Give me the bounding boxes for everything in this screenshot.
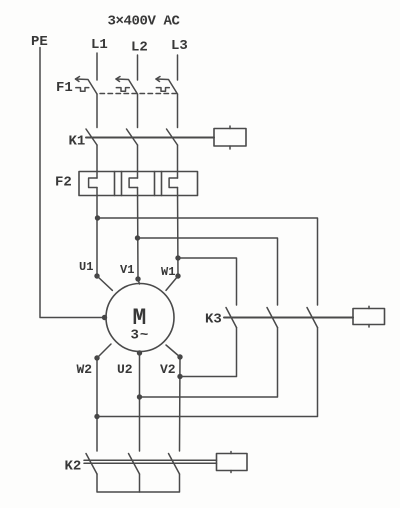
junction W1 branch to K3 bbox=[175, 255, 180, 260]
svg-text:V1: V1 bbox=[120, 263, 134, 277]
terminal V1 bbox=[135, 276, 140, 281]
terminal W1 bbox=[175, 273, 180, 278]
wire K3 contact 3 to W2 bbox=[97, 328, 318, 417]
junction L1 branch to K3 bbox=[95, 215, 100, 220]
svg-text:F1: F1 bbox=[56, 80, 73, 96]
wire K2 star bar bbox=[97, 474, 180, 492]
contactor K1 contact 2 bbox=[127, 129, 138, 145]
wire PE vertical bbox=[40, 48, 105, 318]
wire F2 to motor U1 bbox=[96, 188, 98, 277]
contactor K3 linkage bbox=[224, 317, 353, 319]
wire F1 to K1 phase 1 bbox=[96, 94, 98, 128]
wire K1 to F2 phase 2 bbox=[137, 145, 139, 178]
contactor K1 coil box bbox=[214, 126, 246, 149]
breaker F1 pole 1 bbox=[76, 77, 98, 95]
wire K3 contact 2 to U2 bbox=[140, 328, 278, 398]
wire motor to W2 bbox=[97, 344, 111, 358]
contactor K2 contact 1 bbox=[86, 454, 97, 475]
wire branch L2 to K3 contact 2 bbox=[138, 238, 278, 305]
wire F2 to motor V1 bbox=[137, 188, 140, 280]
svg-text:3×400V AC: 3×400V AC bbox=[108, 14, 181, 30]
svg-text:U2: U2 bbox=[117, 362, 133, 377]
wire F1 to K1 phase 3 bbox=[177, 94, 179, 128]
wire K2 contact 2 lower bbox=[139, 474, 141, 492]
terminal U1 bbox=[94, 273, 99, 278]
contactor K1 contact 3 bbox=[167, 129, 178, 145]
wire W2 down to K2 bbox=[96, 358, 98, 451]
contactor K1 contact 1 bbox=[86, 129, 97, 145]
overload relay F2 heater element 3 bbox=[169, 178, 177, 188]
svg-text:K2: K2 bbox=[65, 459, 82, 475]
contactor K3 contact 1 bbox=[226, 308, 237, 328]
terminal W2 bbox=[94, 355, 99, 360]
wire branch W1 to K3 contact 1 bbox=[178, 258, 237, 305]
wire K1 to F2 phase 3 bbox=[177, 145, 179, 178]
overload relay F2 heater element 1 bbox=[89, 178, 97, 188]
motor M circle bbox=[106, 284, 174, 352]
wire W1 to motor bbox=[166, 276, 178, 290]
junction W2 branch bbox=[94, 414, 99, 419]
contactor K2 contact 2 bbox=[129, 454, 140, 475]
contactor K2 contact 3 bbox=[169, 454, 180, 475]
wire L3 drop to F1 bbox=[177, 55, 179, 80]
contactor K2 coil box bbox=[217, 452, 248, 473]
contactor K3 contact 3 bbox=[307, 308, 318, 328]
wire L1 drop to F1 bbox=[96, 53, 98, 80]
terminal V2 bbox=[177, 354, 182, 359]
wire V2 down to K2 bbox=[179, 357, 182, 451]
wire K3 contact 1 to V2 bbox=[180, 328, 237, 377]
svg-text:L2: L2 bbox=[131, 40, 148, 56]
junction U2 branch bbox=[137, 394, 142, 399]
contactor K3 coil box bbox=[353, 306, 385, 327]
wire F2 to motor W1 bbox=[177, 188, 180, 277]
wire L2 drop to F1 bbox=[137, 55, 139, 80]
overload relay F2 body bbox=[79, 172, 198, 196]
svg-text:K3: K3 bbox=[205, 312, 222, 328]
junction V2 branch bbox=[177, 374, 182, 379]
contactor K1 linkage bbox=[86, 137, 214, 139]
wire K1 to F2 phase 1 bbox=[96, 145, 98, 178]
svg-text:L1: L1 bbox=[91, 37, 108, 53]
contactor K3 contact 2 bbox=[267, 308, 278, 328]
svg-text:V2: V2 bbox=[160, 362, 176, 377]
wire F1 to K1 phase 2 bbox=[137, 94, 139, 128]
wire branch L1 to K3 contact 3 bbox=[97, 218, 318, 305]
wire V1 to motor bbox=[138, 279, 140, 284]
svg-text:3~: 3~ bbox=[131, 328, 150, 344]
svg-text:W2: W2 bbox=[77, 362, 93, 377]
terminal U2 bbox=[137, 350, 142, 355]
svg-text:K1: K1 bbox=[69, 134, 86, 150]
breaker F1 pole 2 bbox=[116, 77, 138, 95]
contactor K2 linkage double line bbox=[84, 460, 217, 463]
wire motor to U2 bbox=[139, 352, 141, 354]
overload relay F2 heater element 2 bbox=[129, 178, 137, 188]
svg-text:U1: U1 bbox=[79, 260, 93, 274]
wire motor to V2 bbox=[166, 345, 180, 357]
junction PE to motor frame bbox=[102, 315, 107, 320]
wire U1 to motor bbox=[97, 276, 112, 290]
svg-text:W1: W1 bbox=[161, 265, 175, 279]
svg-text:L3: L3 bbox=[171, 38, 188, 54]
breaker F1 linkage dashed bbox=[100, 93, 176, 95]
wire U2 down to K2 bbox=[139, 353, 141, 451]
svg-text:F2: F2 bbox=[55, 175, 72, 191]
breaker F1 pole 3 bbox=[156, 77, 178, 95]
junction L2 branch to K3 bbox=[135, 235, 140, 240]
